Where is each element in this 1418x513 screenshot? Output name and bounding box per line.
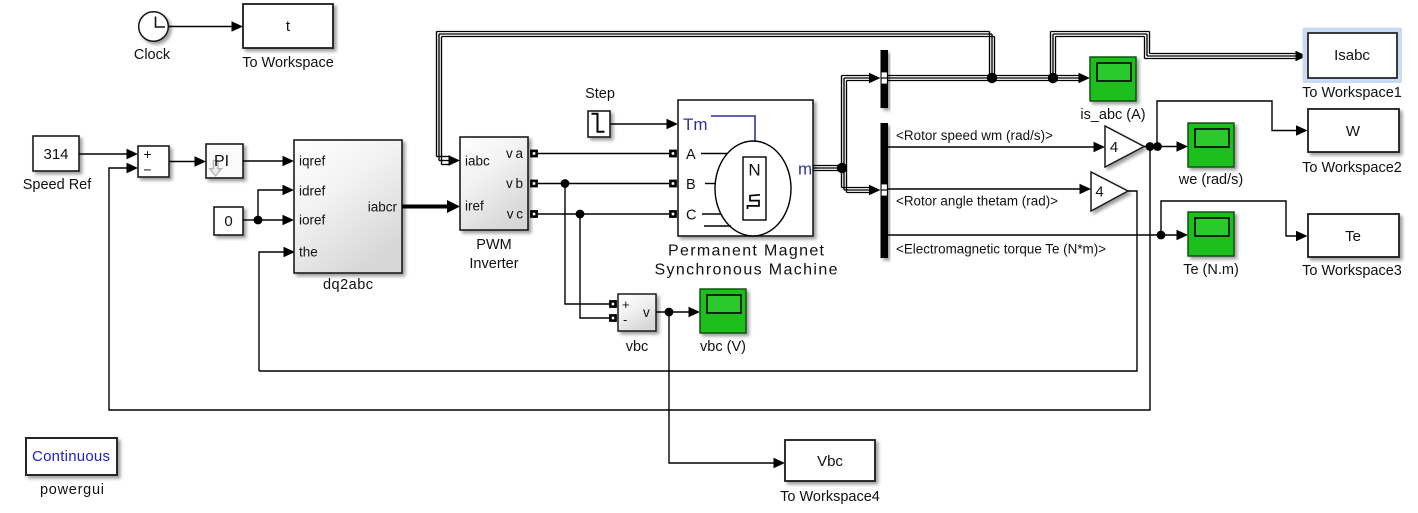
node junction we 1: [1146, 142, 1155, 151]
svg-text:v a: v a: [506, 146, 523, 161]
svg-text:314: 314: [43, 146, 68, 163]
svg-text:idref: idref: [299, 184, 326, 199]
port square vbc +: [609, 300, 617, 308]
node junction is_abc branch 1: [987, 73, 997, 83]
svg-text:+: +: [622, 297, 630, 312]
node junction on vc: [576, 210, 585, 219]
wire theta feedback to the: [259, 247, 295, 371]
wire vb to B: [538, 183, 669, 185]
block To Workspace (t): [242, 4, 334, 71]
wire bus selector 1 output is_abc (3-line): [888, 73, 1090, 84]
svg-text:PI: PI: [214, 153, 229, 170]
svg-text:the: the: [299, 245, 318, 260]
port square C: [669, 210, 677, 218]
svg-text:iabc: iabc: [465, 154, 490, 169]
bus selector 1: [881, 50, 889, 108]
block To Workspace3 (Te): [1302, 214, 1402, 279]
node junction after 0: [254, 216, 263, 225]
port square vbc -: [609, 314, 617, 322]
scope is_abc (A): [1080, 57, 1145, 123]
wire vc tap down to vbc -: [580, 214, 610, 318]
svg-text:v: v: [643, 305, 650, 320]
wire iabcr to iref (vector, thick): [402, 200, 460, 213]
svg-text:iabcr: iabcr: [368, 200, 398, 215]
svg-text:PWM: PWM: [476, 237, 511, 253]
PI controller block: [206, 144, 243, 178]
svg-text:dq2abc: dq2abc: [323, 277, 373, 293]
svg-text:Continuous: Continuous: [32, 448, 110, 465]
wire bus2 output rotor angle: [888, 184, 1091, 209]
scope vbc (V): [700, 289, 746, 355]
svg-text:Permanent Magnet: Permanent Magnet: [668, 243, 825, 260]
wire bus2 output torque Te: [888, 230, 1188, 257]
port square vb: [530, 180, 538, 188]
svg-text:powergui: powergui: [40, 482, 104, 498]
svg-text:To Workspace1: To Workspace1: [1302, 85, 1402, 101]
node junction on vb: [561, 179, 570, 188]
svg-text:Synchronous Machine: Synchronous Machine: [655, 262, 838, 279]
constant block 314 (Speed Ref): [23, 136, 92, 193]
wire sum to PI: [169, 156, 206, 167]
svg-text:is_abc (A): is_abc (A): [1080, 107, 1145, 123]
clock block Clock: [134, 12, 171, 63]
wire vb tap down to vbc +: [565, 184, 610, 305]
svg-text:B: B: [686, 177, 696, 193]
svg-text:Clock: Clock: [134, 47, 171, 63]
svg-text:vbc (V): vbc (V): [700, 339, 746, 355]
node junction is_abc branch 2: [1048, 73, 1058, 83]
node junction Te branch: [1157, 231, 1166, 240]
svg-text:<Electromagnetic torque Te (N*: <Electromagnetic torque Te (N*m)>: [896, 242, 1106, 257]
svg-text:W: W: [1346, 123, 1361, 140]
node junction m bus: [837, 163, 847, 173]
wire va to A: [538, 153, 669, 155]
svg-text:+: +: [143, 146, 151, 162]
svg-text:<Rotor angle thetam (rad)>: <Rotor angle thetam (rad)>: [896, 194, 1058, 209]
svg-text:Isabc: Isabc: [1334, 47, 1370, 64]
wire we to To Workspace2: [1157, 101, 1308, 147]
svg-text:Inverter: Inverter: [469, 256, 518, 272]
svg-text:-: -: [623, 312, 627, 327]
wire gain speed output: [1144, 146, 1177, 148]
svg-text:To Workspace3: To Workspace3: [1302, 263, 1402, 279]
port square B: [669, 180, 677, 188]
svg-text:To Workspace2: To Workspace2: [1302, 160, 1402, 176]
port square vc: [530, 210, 538, 218]
wire vbc to To Workspace4: [669, 312, 785, 468]
wire Step to Tm: [610, 119, 678, 130]
wire vbc to scope: [656, 307, 700, 318]
wire Clock to To Workspace: [168, 21, 243, 32]
gain block 4 (speed): [1105, 126, 1144, 167]
wire PI to iqref: [243, 156, 294, 167]
wire bus2 output rotor speed: [888, 128, 1105, 152]
svg-text:To Workspace4: To Workspace4: [780, 489, 880, 505]
wire 0 output: [243, 219, 258, 221]
svg-text:4: 4: [1110, 139, 1118, 156]
node junction we 2: [1153, 142, 1162, 151]
wire vc to C: [538, 213, 669, 215]
svg-text:vbc: vbc: [626, 339, 649, 355]
wire we feedback to sum -: [109, 147, 1150, 411]
svg-text:−: −: [143, 162, 151, 178]
wire bus m to Bus Selector 1 (3-line): [842, 73, 881, 168]
svg-text:Vbc: Vbc: [817, 453, 843, 470]
machine block Permanent Magnet Synchronous Machine: [655, 100, 838, 279]
wire is_abc feedback to iabc (3-line): [437, 32, 995, 166]
wire is_abc to To Workspace1 (3-line): [1051, 32, 1308, 79]
svg-text:Te (N.m): Te (N.m): [1183, 262, 1239, 278]
svg-text:To Workspace: To Workspace: [242, 55, 334, 71]
wire m output bus (3-line): [813, 166, 845, 171]
constant block 0: [214, 207, 243, 235]
wire 314 to sum +: [79, 149, 138, 160]
svg-text:Te: Te: [1345, 228, 1361, 245]
port square A: [669, 150, 677, 158]
svg-text:A: A: [686, 147, 696, 163]
svg-text:Speed Ref: Speed Ref: [23, 177, 92, 193]
svg-text:iqref: iqref: [299, 154, 326, 169]
svg-text:0: 0: [224, 213, 232, 230]
voltage measurement block vbc: [618, 294, 656, 355]
wire to ioref: [258, 215, 294, 226]
svg-text:4: 4: [1095, 184, 1103, 201]
bus selector 2: [881, 123, 889, 258]
svg-text:ioref: ioref: [299, 213, 326, 228]
block To Workspace4 (Vbc): [780, 440, 880, 505]
port square va: [530, 150, 538, 158]
svg-text:N: N: [748, 161, 760, 180]
step block Step: [585, 86, 615, 137]
svg-text:<Rotor speed wm (rad/s)>: <Rotor speed wm (rad/s)>: [896, 128, 1053, 143]
powergui block Continuous: [26, 438, 117, 498]
wire to idref: [258, 185, 294, 220]
svg-text:C: C: [686, 208, 696, 224]
svg-text:m: m: [798, 160, 812, 179]
subsystem block dq2abc: [294, 140, 402, 293]
scope we (rad/s): [1178, 123, 1243, 188]
svg-text:v c: v c: [507, 207, 523, 222]
sum block: [138, 146, 169, 178]
gain block 4 (angle): [1091, 172, 1128, 211]
svg-text:iref: iref: [465, 199, 484, 214]
scope Te (N.m): [1183, 212, 1239, 278]
node junction vbc: [665, 308, 674, 317]
svg-text:we (rad/s): we (rad/s): [1178, 172, 1243, 188]
wire gain angle output / theta feedback: [259, 191, 1137, 371]
svg-text:Step: Step: [585, 86, 615, 102]
wire bus m to Bus Selector 2 (3-line): [842, 168, 881, 195]
block To Workspace1 (Isabc, selected): [1302, 28, 1402, 102]
subsystem block PWM Inverter: [460, 137, 528, 272]
svg-text:v b: v b: [506, 176, 523, 191]
block To Workspace2 (W): [1302, 109, 1402, 176]
svg-text:Tm: Tm: [683, 115, 708, 134]
wire Te to To Workspace3: [1161, 201, 1308, 241]
